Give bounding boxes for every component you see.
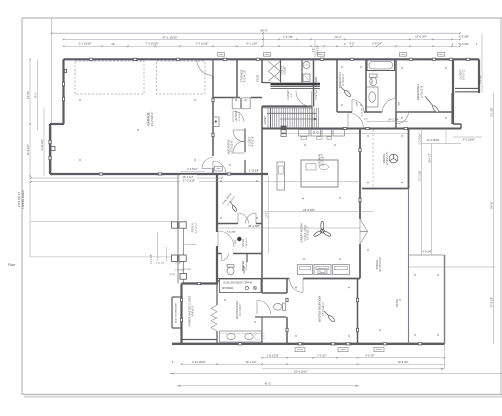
svg-text:CLOSET: CLOSET (285, 65, 287, 75)
svg-text:32'-1 5/8": 32'-1 5/8" (248, 224, 260, 228)
svg-text:12'-4": 12'-4" (334, 35, 341, 39)
svg-text:37'-2 5/16": 37'-2 5/16" (183, 179, 195, 183)
svg-text:LIVING AREA: LIVING AREA (21, 190, 25, 209)
svg-text:7'-6 1/2": 7'-6 1/2" (317, 354, 327, 358)
svg-text:14'-4"x6'-2": 14'-4"x6'-2" (193, 305, 195, 317)
svg-text:23'-0 3/4": 23'-0 3/4" (318, 45, 320, 55)
svg-text:12'-4 15/16": 12'-4 15/16" (426, 139, 439, 142)
svg-text:FOYER: FOYER (242, 239, 245, 248)
svg-text:11'-1"x12'-6": 11'-1"x12'-6" (240, 303, 242, 316)
svg-text:Floor: Floor (8, 263, 16, 267)
svg-text:6'-2"x13'-2": 6'-2"x13'-2" (196, 222, 198, 233)
svg-text:6'-0 13/16": 6'-0 13/16" (463, 139, 475, 142)
svg-text:4'-2"x4'-10": 4'-2"x4'-10" (244, 70, 247, 82)
svg-text:CLOSET: CLOSET (249, 136, 252, 146)
svg-text:CLOSET: CLOSET (265, 115, 267, 125)
svg-text:BEDROOM 2: BEDROOM 2 (416, 83, 420, 100)
svg-text:5'-6 3/4": 5'-6 3/4" (459, 42, 469, 46)
svg-text:CLOSET: CLOSET (460, 69, 463, 79)
svg-text:PATIO: PATIO (395, 299, 399, 307)
svg-text:8'-1": 8'-1" (34, 92, 38, 97)
svg-text:DUAL END BODY SPRAY: DUAL END BODY SPRAY (223, 282, 253, 285)
svg-text:17'-8 1/8": 17'-8 1/8" (491, 297, 494, 308)
svg-text:KITCHEN: KITCHEN (317, 154, 321, 166)
svg-text:34'-10"x10'-0": 34'-10"x10'-0" (379, 257, 382, 272)
svg-text:2'-8": 2'-8" (313, 48, 315, 53)
svg-text:3 1/2"x13'-0 3/4" WALL: 3 1/2"x13'-0 3/4" WALL (315, 75, 318, 99)
svg-text:3'-10 5/16": 3'-10 5/16" (419, 133, 422, 145)
svg-text:7'-9 7/8": 7'-9 7/8" (226, 231, 235, 234)
svg-text:4'-6": 4'-6" (349, 42, 354, 46)
svg-text:14'-1"x16'-4": 14'-1"x16'-4" (322, 302, 325, 316)
svg-text:2'-6"x6'-6": 2'-6"x6'-6" (246, 261, 248, 271)
svg-text:7'-11 1/4": 7'-11 1/4" (155, 263, 164, 265)
svg-text:9'-10 13/16": 9'-10 13/16" (192, 360, 206, 364)
svg-text:UTILITY: UTILITY (282, 65, 284, 74)
svg-text:2'-6": 2'-6" (291, 93, 293, 98)
svg-text:BATH: BATH (371, 77, 374, 84)
svg-text:2'-0"x7'-11": 2'-0"x7'-11" (464, 69, 466, 81)
svg-text:1'-8 13/16": 1'-8 13/16" (267, 354, 279, 358)
svg-text:11'-5"x12'-6": 11'-5"x12'-6" (420, 85, 423, 98)
svg-text:BUILT-IN DRESSER: BUILT-IN DRESSER (176, 303, 178, 323)
svg-text:9'-1 1/8": 9'-1 1/8" (491, 107, 494, 116)
svg-text:2'-11 5/8": 2'-11 5/8" (249, 169, 259, 172)
svg-text:41'-1": 41'-1" (265, 382, 272, 386)
svg-text:1'-5 5/16": 1'-5 5/16" (187, 168, 198, 171)
svg-text:16'-1 1/2": 16'-1 1/2" (246, 360, 257, 364)
svg-text:12'-2"x16'-0": 12'-2"x16'-0" (323, 153, 325, 166)
svg-text:12'-0"x14'-5": 12'-0"x14'-5" (386, 152, 389, 166)
svg-text:11'-4"x10'-0": 11'-4"x10'-0" (343, 73, 345, 86)
svg-text:BEDROOM 3: BEDROOM 3 (338, 72, 342, 88)
svg-text:11'-1 3/4": 11'-1 3/4" (151, 254, 153, 264)
svg-text:14'-10": 14'-10" (26, 91, 30, 99)
svg-text:7'-10"x6'-2": 7'-10"x6'-2" (246, 237, 248, 248)
svg-text:5'-5 7/8": 5'-5 7/8" (365, 354, 374, 357)
svg-text:MASTER BATH: MASTER BATH (235, 301, 239, 319)
svg-text:SHOWER: SHOWER (222, 287, 233, 290)
svg-text:7'-4 7/8": 7'-4 7/8" (283, 35, 293, 39)
svg-text:2'6 SQ: 2'6 SQ (258, 75, 260, 82)
svg-text:22'-3 5/8": 22'-3 5/8" (303, 208, 315, 212)
svg-text:4'-0"x7'-4": 4'-0"x7'-4" (252, 136, 254, 146)
svg-text:18': 18' (111, 42, 115, 46)
svg-text:13'-6 3/4": 13'-6 3/4" (415, 35, 427, 39)
svg-text:7'-3 15/16": 7'-3 15/16" (146, 42, 159, 46)
svg-text:GARAGE: GARAGE (147, 112, 151, 126)
svg-text:2668: 2668 (399, 102, 401, 106)
svg-text:PORCH: PORCH (192, 223, 195, 232)
svg-text:2774 SQ FT: 2774 SQ FT (17, 192, 21, 208)
svg-text:24'-1 3/4": 24'-1 3/4" (388, 117, 399, 121)
svg-text:4'-5 5/8": 4'-5 5/8" (459, 35, 469, 39)
svg-text:38'-4 1/4": 38'-4 1/4" (183, 175, 194, 179)
svg-text:7'-3 15/16": 7'-3 15/16" (196, 42, 209, 46)
svg-text:10'-2"x12'-8": 10'-2"x12'-8" (231, 140, 234, 154)
svg-text:4'-9 3/4": 4'-9 3/4" (422, 251, 431, 254)
svg-text:1'-10 3/4": 1'-10 3/4" (175, 269, 184, 271)
svg-text:66'-6": 66'-6" (260, 29, 268, 33)
svg-text:GREAT ROOM: GREAT ROOM (300, 223, 304, 243)
svg-text:4'-1/2": 4'-1/2" (175, 263, 181, 265)
svg-text:12'-6 1/2": 12'-6 1/2" (26, 144, 30, 155)
svg-text:63'-4 11/16": 63'-4 11/16" (294, 369, 308, 373)
svg-text:4'-1/2": 4'-1/2" (170, 274, 176, 276)
svg-text:17'-11 5/8": 17'-11 5/8" (419, 170, 422, 181)
svg-text:2'-10 3/4": 2'-10 3/4" (361, 107, 363, 116)
svg-text:4'-10 1/2": 4'-10 1/2" (40, 139, 44, 150)
svg-text:ROOM: ROOM (243, 266, 246, 273)
svg-text:2'-6": 2'-6" (364, 119, 368, 121)
svg-text:24'-2"x30'-4": 24'-2"x30'-4" (150, 112, 154, 127)
svg-text:8'-1 1/16": 8'-1 1/16" (246, 41, 257, 45)
svg-text:18'-4 1/2": 18'-4 1/2" (429, 153, 432, 163)
svg-text:9'-1 1/8": 9'-1 1/8" (479, 74, 482, 83)
svg-text:CLOSET: CLOSET (287, 90, 290, 100)
svg-text:2'-1 15/16": 2'-1 15/16" (79, 42, 92, 46)
svg-text:PRIVATE MASTER CLOSET: PRIVATE MASTER CLOSET (189, 295, 192, 326)
svg-text:2668: 2668 (357, 102, 359, 106)
svg-text:6'-1"x5'-2": 6'-1"x5'-2" (239, 111, 241, 121)
svg-text:LAUNDRY: LAUNDRY (235, 110, 238, 122)
svg-text:13'-2": 13'-2" (266, 212, 269, 218)
svg-text:19'-6 3/4": 19'-6 3/4" (398, 360, 409, 364)
svg-text:47'-1 15/16": 47'-1 15/16" (162, 35, 177, 39)
svg-text:2'-8 3/4": 2'-8 3/4" (372, 42, 382, 46)
svg-text:24'-10": 24'-10" (491, 201, 494, 209)
